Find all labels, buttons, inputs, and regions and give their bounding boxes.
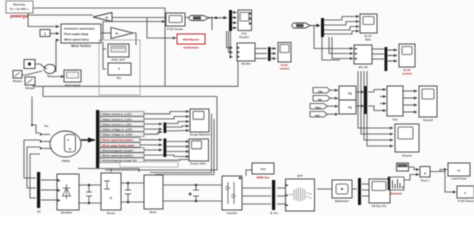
svg-text:Selected: Selected xyxy=(390,192,402,196)
svg-text:Pitch angle (deg): Pitch angle (deg) xyxy=(64,32,88,36)
svg-text:<Stator current is_c (A)>: <Stator current is_c (A)> xyxy=(102,122,133,126)
svg-text:AB Bus Vis: AB Bus Vis xyxy=(371,204,386,208)
svg-text:Scopes: Scopes xyxy=(239,35,249,39)
svg-text:-K-: -K- xyxy=(105,16,109,20)
svg-text:PQ: PQ xyxy=(348,92,352,96)
svg-text:Iab1: Iab1 xyxy=(315,114,321,118)
svg-text:Multimeter: Multimeter xyxy=(335,199,350,203)
svg-text:system: system xyxy=(280,67,290,71)
svg-text:wind speed: wind speed xyxy=(64,83,81,87)
svg-text:Ramp1: Ramp1 xyxy=(13,79,23,83)
svg-text:Vabc: Vabc xyxy=(365,38,372,42)
svg-text:P-SG Scope: P-SG Scope xyxy=(167,27,183,31)
svg-text:<Stator voltage vs_q (V)>: <Stator voltage vs_q (V)> xyxy=(102,128,134,132)
svg-text:Boost: Boost xyxy=(107,211,115,215)
svg-text:Tm: Tm xyxy=(44,124,49,128)
svg-text:Scope2: Scope2 xyxy=(423,118,433,122)
svg-text:powergui: powergui xyxy=(10,14,29,19)
svg-text:PWM Gen: PWM Gen xyxy=(256,176,269,180)
svg-text:wind_perf: wind_perf xyxy=(110,58,124,62)
svg-text:Pout 1: Pout 1 xyxy=(421,179,430,183)
svg-text:Generator speed (pu): Generator speed (pu) xyxy=(64,27,94,31)
svg-text:B1: B1 xyxy=(37,210,41,214)
svg-text:abc-dq: abc-dq xyxy=(358,65,367,69)
svg-text:Pm: Pm xyxy=(117,76,122,80)
svg-text:Buck: Buck xyxy=(150,210,157,214)
svg-text:PQ: PQ xyxy=(348,106,352,110)
svg-text:Scope1: Scope1 xyxy=(402,154,412,158)
svg-text:Rectifier: Rectifier xyxy=(61,211,73,215)
svg-text:Ts = 2e-005 s.: Ts = 2e-005 s. xyxy=(10,7,30,11)
svg-text:Discrete,: Discrete, xyxy=(13,3,26,7)
svg-text:Vref: Vref xyxy=(260,167,265,171)
svg-text:MultiSpeed: MultiSpeed xyxy=(183,38,199,42)
svg-text:Vab1: Vab1 xyxy=(315,106,322,110)
svg-text:grid: grid xyxy=(297,174,303,178)
svg-text:<Rotor speed wm (rad/s)>: <Rotor speed wm (rad/s)> xyxy=(102,154,134,158)
svg-text:Wind speed (m/s): Wind speed (m/s) xyxy=(64,38,89,42)
svg-text:Scope Volts: Scope Volts xyxy=(190,162,206,166)
svg-text:<Rotor speed wm (rad/s)>: <Rotor speed wm (rad/s)> xyxy=(102,138,134,142)
svg-text:Load Power: Load Power xyxy=(451,177,468,181)
svg-text:system: system xyxy=(402,72,412,76)
svg-text:x: x xyxy=(424,172,426,176)
svg-text:-K-: -K- xyxy=(457,169,461,173)
svg-text:T: T xyxy=(118,67,120,71)
svg-text:Iab: Iab xyxy=(318,98,322,102)
svg-text:Scope Machine: Scope Machine xyxy=(190,133,211,137)
svg-text:dq-abc: dq-abc xyxy=(241,62,251,66)
svg-text:-K-: -K- xyxy=(115,32,119,36)
svg-text:<Stator current is_a (A)>: <Stator current is_a (A)> xyxy=(102,112,133,116)
svg-text:<Electromagnetic torque>: <Electromagnetic torque> xyxy=(102,148,134,152)
svg-text:Vab: Vab xyxy=(318,90,323,94)
svg-text:P-SG Power: P-SG Power xyxy=(458,199,474,203)
svg-text:Vdc: Vdc xyxy=(392,118,398,122)
svg-text:C: C xyxy=(189,192,192,196)
svg-text:Inverter: Inverter xyxy=(227,211,238,215)
svg-text:Wind Turbine: Wind Turbine xyxy=(71,44,91,48)
svg-text:multimeter: multimeter xyxy=(183,46,199,50)
svg-text:<Rotor angle thetam (rad)>: <Rotor angle thetam (rad)> xyxy=(102,143,136,147)
svg-text:<Stator voltage vs_d (V)>: <Stator voltage vs_d (V)> xyxy=(102,133,134,137)
svg-text:Ramp2: Ramp2 xyxy=(25,86,35,90)
svg-text:PMSG: PMSG xyxy=(62,159,70,163)
svg-text:1: 1 xyxy=(44,32,46,36)
svg-text:B_inv: B_inv xyxy=(270,211,278,215)
svg-text:<Stator current is_b (A)>: <Stator current is_b (A)> xyxy=(102,117,133,121)
